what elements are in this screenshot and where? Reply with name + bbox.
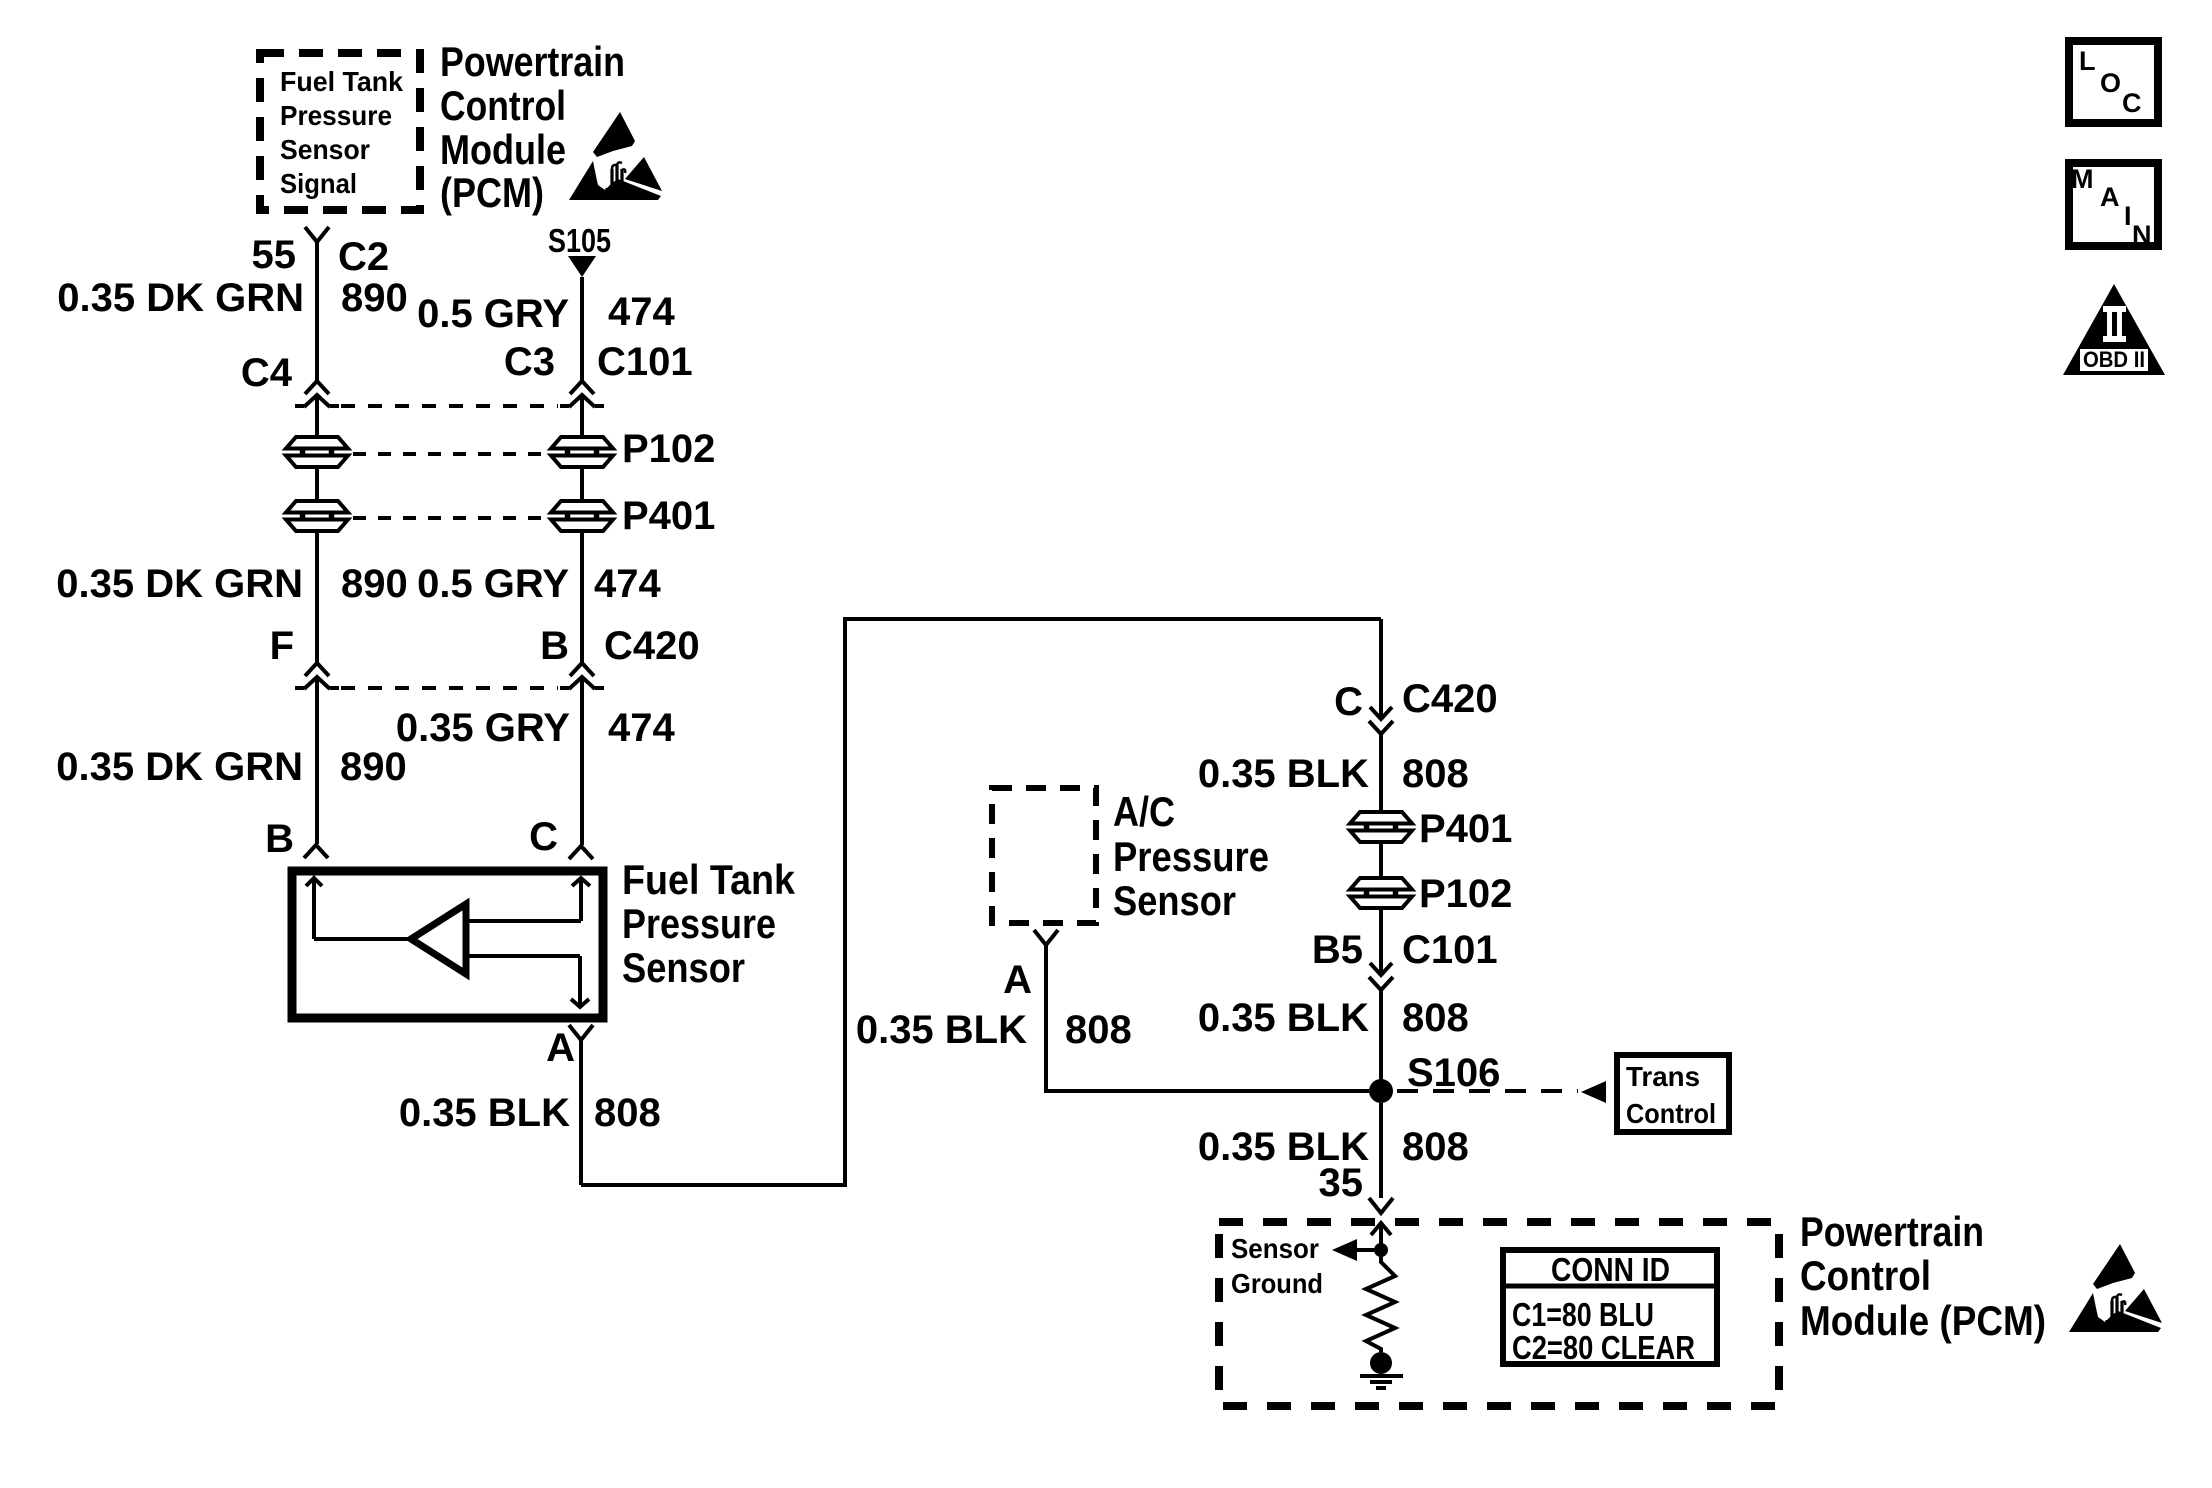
- svg-text:474: 474: [608, 290, 675, 334]
- svg-text:C: C: [1334, 680, 1363, 724]
- svg-text:Pressure: Pressure: [622, 900, 776, 947]
- terminal Y at PCM pin 35: [1369, 1198, 1393, 1213]
- svg-text:0.35 BLK: 0.35 BLK: [399, 1091, 570, 1135]
- svg-text:808: 808: [1402, 752, 1469, 796]
- svg-text:808: 808: [594, 1091, 661, 1135]
- svg-text:0.5 GRY: 0.5 GRY: [417, 292, 569, 336]
- wire: 0.35 DK GRN 890 PCM to C4: [315, 242, 319, 381]
- svg-text:0.35 DK GRN: 0.35 DK GRN: [56, 562, 303, 606]
- svg-text:Pressure: Pressure: [1113, 833, 1269, 880]
- svg-text:35: 35: [1319, 1161, 1364, 1205]
- svg-text:0.35 BLK: 0.35 BLK: [1198, 996, 1369, 1040]
- svg-text:A: A: [546, 1026, 575, 1070]
- svg-text:A: A: [1003, 958, 1032, 1002]
- grommet P102 right branch: [1350, 878, 1412, 908]
- dashed module box: Powertrain Control Module (PCM) bottom: [1219, 1222, 1779, 1406]
- ground symbol: [1360, 1374, 1403, 1378]
- svg-text:C2: C2: [338, 235, 389, 279]
- svg-text:0.35 DK GRN: 0.35 DK GRN: [57, 276, 304, 320]
- wire: A/C pin A to S106 (0.35 BLK 808): [1046, 945, 1369, 1091]
- svg-text:Pressure: Pressure: [280, 100, 392, 131]
- svg-text:A: A: [2100, 182, 2120, 212]
- pin A terminal Y below sensor: [569, 1025, 593, 1040]
- svg-text:S106: S106: [1407, 1051, 1500, 1095]
- svg-text:Sensor: Sensor: [1113, 877, 1236, 924]
- internal wire pin C to amp: [466, 919, 581, 923]
- svg-text:C101: C101: [597, 340, 693, 384]
- arrowhead into Trans Control: [1581, 1081, 1606, 1103]
- svg-text:55: 55: [252, 233, 297, 277]
- ESD warning icon (top PCM): [569, 112, 662, 200]
- svg-text:L: L: [2079, 46, 2096, 76]
- sensor box: [292, 871, 603, 1018]
- grommet P401 left: [286, 501, 348, 531]
- wire: C420-F to sensor pin B (0.35 DK GRN 890): [315, 677, 319, 844]
- svg-text:C101: C101: [1402, 928, 1498, 972]
- grommet P401 right branch: [1350, 812, 1412, 842]
- svg-text:C4: C4: [241, 351, 293, 395]
- svg-text:OBD II: OBD II: [2083, 347, 2145, 372]
- connector C420-B female half: [570, 663, 594, 676]
- connector C101-B5 female half (down): [1369, 977, 1393, 990]
- junction dot at sensor ground tap: [1374, 1243, 1388, 1257]
- svg-text:N: N: [2132, 220, 2152, 250]
- connector C420-F male half: [295, 677, 339, 689]
- pin A terminal Y (A/C sensor): [1034, 930, 1058, 945]
- grommet P102 right: [551, 437, 613, 467]
- svg-text:Ground: Ground: [1231, 1268, 1323, 1299]
- svg-text:Powertrain: Powertrain: [440, 38, 625, 85]
- svg-text:I: I: [2124, 201, 2132, 231]
- sensor ground arrow left: [1356, 1248, 1381, 1252]
- wire: C101-B5 to S106 (0.35 BLK 808): [1379, 990, 1383, 1091]
- svg-text:474: 474: [594, 562, 661, 606]
- internal arrow up (pin B): [306, 878, 322, 886]
- svg-text:C2=80 CLEAR: C2=80 CLEAR: [1512, 1329, 1695, 1366]
- wire: S106 down to PCM pin 35 (0.35 BLK 808): [1379, 1103, 1383, 1198]
- connector C101-B5 male half (down): [1370, 963, 1392, 975]
- Trans Control box: [1617, 1055, 1729, 1132]
- grommet P102 left: [286, 437, 348, 467]
- connector C4 female half: [305, 381, 329, 394]
- wire: bottom run to riser: [581, 619, 1381, 1185]
- grommet P401 right: [551, 501, 613, 531]
- wire: riser top to C420-C: [1379, 619, 1383, 719]
- dashed box: A/C Pressure Sensor: [992, 788, 1096, 923]
- svg-text:Signal: Signal: [280, 168, 357, 199]
- connector C420-C female half (down): [1369, 721, 1393, 734]
- svg-text:Control: Control: [440, 82, 566, 129]
- svg-text:Sensor: Sensor: [280, 134, 370, 165]
- wire: P102 to P401 left: [315, 469, 319, 499]
- ground dot: [1370, 1352, 1392, 1374]
- svg-text:474: 474: [608, 706, 675, 750]
- connector C420-C male half (down): [1370, 707, 1392, 719]
- resistor (internal): [1366, 1250, 1395, 1352]
- svg-text:0.35 DK GRN: 0.35 DK GRN: [56, 745, 303, 789]
- svg-text:C3: C3: [504, 340, 555, 384]
- dashed link P102: [353, 452, 548, 456]
- ESD warning icon (bottom PCM): [2069, 1244, 2162, 1332]
- wire: C420-C to P401 (0.35 BLK 808): [1379, 734, 1383, 810]
- svg-text:808: 808: [1065, 1008, 1132, 1052]
- pin B chevron at sensor: [304, 845, 328, 858]
- icon LOC: [2069, 41, 2158, 123]
- svg-text:808: 808: [1402, 1125, 1469, 1169]
- svg-text:890: 890: [341, 562, 408, 606]
- svg-text:Fuel Tank: Fuel Tank: [280, 66, 403, 97]
- svg-text:P102: P102: [1419, 872, 1512, 916]
- svg-text:890: 890: [341, 276, 408, 320]
- op-amp triangle: [411, 904, 466, 974]
- connector C101-C3 male half: [560, 395, 604, 407]
- wire: P401 to P102: [1379, 844, 1383, 876]
- svg-text:C: C: [529, 815, 558, 859]
- wire: below C3 to P102: [580, 395, 584, 435]
- dashed wire to Trans Control: [1397, 1089, 1578, 1093]
- internal arrow up into PCM: [1371, 1223, 1391, 1235]
- svg-text:B: B: [265, 817, 294, 861]
- wire: C420-B to sensor pin C (0.35 GRY 474): [580, 677, 584, 845]
- wire: pin A down (0.35 BLK 808): [579, 1040, 583, 1185]
- svg-text:S105: S105: [548, 222, 611, 259]
- wire: P401 to C420-B (0.5 GRY 474): [580, 533, 584, 663]
- svg-text:808: 808: [1402, 996, 1469, 1040]
- svg-text:P401: P401: [1419, 807, 1512, 851]
- svg-text:0.5 GRY: 0.5 GRY: [417, 562, 569, 606]
- terminal Y at PCM pin 55: [305, 227, 329, 242]
- connector C420-F female half: [305, 663, 329, 676]
- svg-text:890: 890: [340, 745, 407, 789]
- svg-text:Powertrain: Powertrain: [1800, 1208, 1984, 1255]
- svg-text:P401: P401: [622, 494, 715, 538]
- svg-text:B5: B5: [1312, 928, 1363, 972]
- icon MAIN: [2069, 163, 2158, 250]
- svg-text:P102: P102: [622, 427, 715, 471]
- icon OBD II triangle: [2063, 284, 2165, 375]
- svg-text:Sensor: Sensor: [1231, 1233, 1319, 1264]
- wire: P401 to C420-F (0.35 DK GRN 890): [315, 533, 319, 663]
- internal wire amp to pin A (arrow down): [466, 954, 580, 958]
- svg-text:A/C: A/C: [1113, 788, 1175, 835]
- dashed link C420 F-B: [341, 686, 558, 690]
- connector C4 male half: [295, 395, 339, 407]
- connector C101-C3 female half: [570, 381, 594, 394]
- svg-text:Fuel Tank: Fuel Tank: [622, 856, 796, 903]
- svg-text:C1=80 BLU: C1=80 BLU: [1512, 1296, 1654, 1333]
- svg-text:(PCM): (PCM): [440, 169, 544, 216]
- svg-text:Control: Control: [1626, 1098, 1716, 1129]
- splice S106 junction dot: [1369, 1079, 1393, 1103]
- CONN ID table: [1503, 1250, 1717, 1366]
- wire: P102 to C101-B5: [1379, 910, 1383, 975]
- svg-text:Trans: Trans: [1626, 1061, 1700, 1092]
- svg-text:O: O: [2100, 68, 2121, 98]
- pin C chevron at sensor: [569, 846, 593, 859]
- dashed link C4-C3: [341, 404, 558, 408]
- svg-text:C420: C420: [604, 624, 700, 668]
- svg-text:0.35 BLK: 0.35 BLK: [856, 1008, 1027, 1052]
- svg-text:Control: Control: [1800, 1252, 1931, 1299]
- wire: S105 to C3 (0.5 GRY 474): [580, 277, 584, 381]
- svg-text:B: B: [540, 624, 569, 668]
- svg-text:M: M: [2071, 164, 2094, 194]
- wire: P102 to P401 right: [580, 469, 584, 499]
- svg-text:Sensor: Sensor: [622, 944, 745, 991]
- connector C420-B male half: [560, 677, 604, 689]
- dashed link P401: [353, 516, 548, 520]
- wire: below C4 to P102: [315, 395, 319, 435]
- svg-text:Module (PCM): Module (PCM): [1800, 1297, 2046, 1344]
- svg-text:C: C: [2122, 88, 2142, 118]
- svg-text:Module: Module: [440, 126, 566, 173]
- svg-text:F: F: [270, 624, 294, 668]
- svg-text:CONN ID: CONN ID: [1551, 1251, 1670, 1288]
- svg-text:C420: C420: [1402, 677, 1498, 721]
- svg-text:0.35 GRY: 0.35 GRY: [396, 706, 570, 750]
- dashed module box: Fuel Tank Pressure Sensor Signal: [260, 53, 420, 210]
- internal wire to amplifier tip: [314, 937, 411, 941]
- svg-text:0.35 BLK: 0.35 BLK: [1198, 752, 1369, 796]
